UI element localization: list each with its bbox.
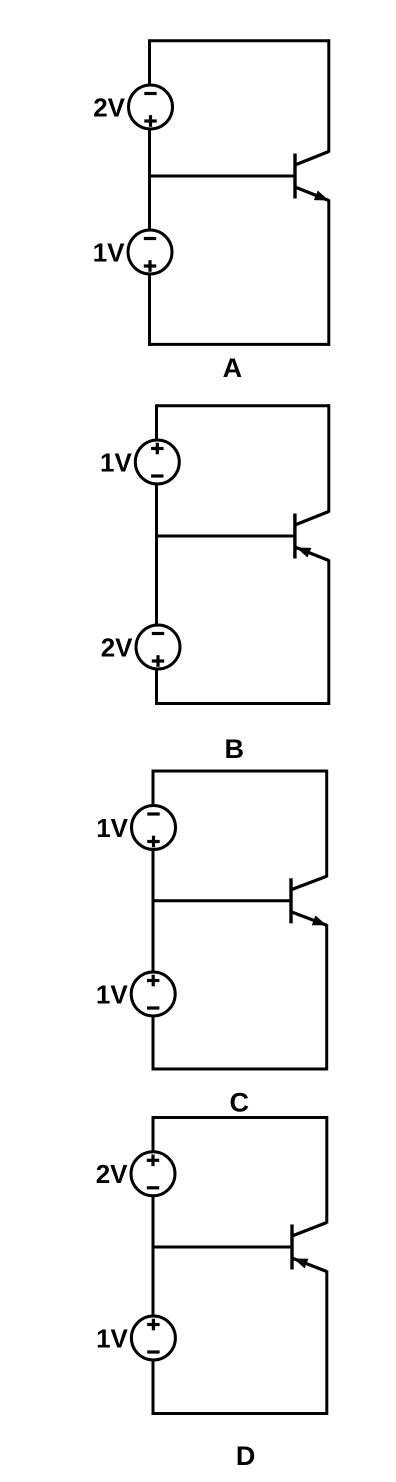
svg-text:1V: 1V [96,1323,128,1353]
svg-text:2V: 2V [93,92,125,122]
svg-text:1V: 1V [100,447,132,477]
svg-text:1V: 1V [96,979,128,1009]
svg-text:A: A [223,353,243,383]
svg-text:1V: 1V [96,813,128,843]
svg-text:2V: 2V [96,1159,128,1189]
svg-text:2V: 2V [101,632,133,662]
svg-text:D: D [236,1441,256,1471]
svg-text:C: C [229,1088,249,1118]
svg-text:1V: 1V [93,237,125,267]
svg-text:B: B [224,734,244,764]
